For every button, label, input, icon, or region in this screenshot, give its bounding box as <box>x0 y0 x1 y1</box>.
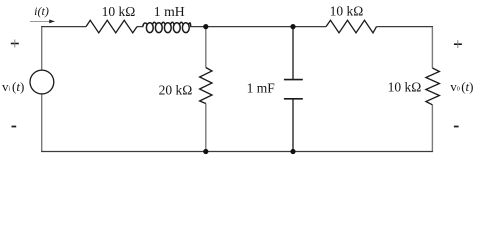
svg-text:1 mH: 1 mH <box>154 4 185 19</box>
svg-text:vi(t): vi(t) <box>2 79 24 94</box>
svg-text:i(t): i(t) <box>34 4 49 18</box>
svg-text:10 kΩ: 10 kΩ <box>330 4 364 19</box>
svg-text:20 kΩ: 20 kΩ <box>159 82 193 97</box>
svg-text:v0(t): v0(t) <box>450 79 473 94</box>
svg-text:1 mF: 1 mF <box>247 81 276 96</box>
svg-text:10 kΩ: 10 kΩ <box>388 80 422 95</box>
svg-text:10 kΩ: 10 kΩ <box>102 4 136 19</box>
